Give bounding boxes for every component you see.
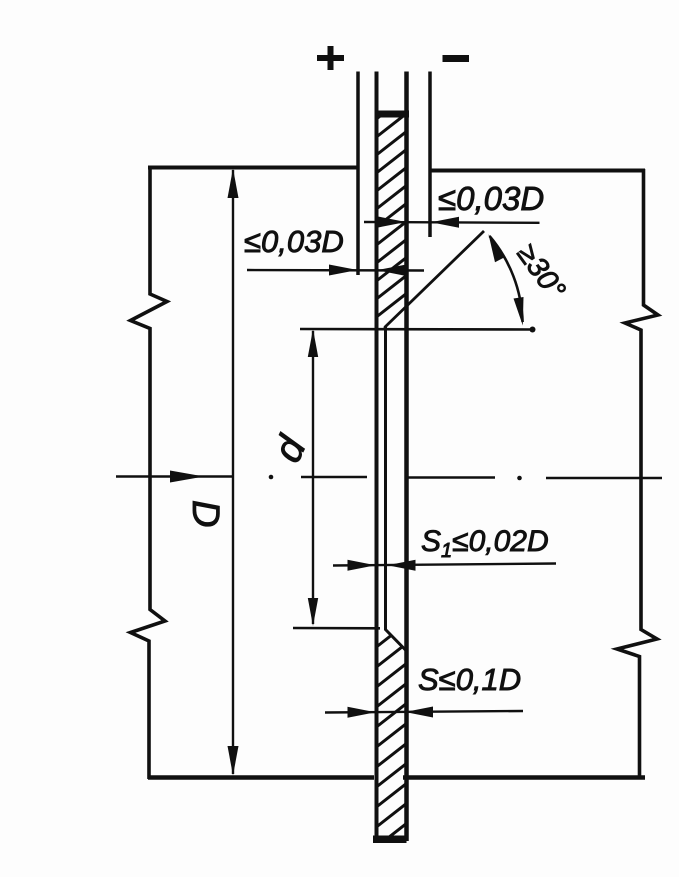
- left tap channel wall: [356, 72, 360, 276]
- dimension d bottom arrowhead: [308, 598, 318, 626]
- S1 left-pointing arrowhead: [388, 560, 416, 571]
- pipe top wall right segment: [430, 169, 645, 173]
- left slit dimension line: [247, 269, 424, 272]
- pipe right wall with break symbols: [617, 169, 658, 778]
- plate bottom end cap: [373, 836, 407, 844]
- pipe bottom wall right segment: [403, 775, 645, 780]
- flow centerline (dash-dot): [116, 477, 662, 479]
- lower bevel edge: [385, 629, 407, 651]
- centerline dot right: [517, 476, 522, 481]
- pipe top wall left segment: [148, 166, 358, 170]
- left slit left-pointing arrowhead: [377, 265, 405, 276]
- svg-text:≤0,03D: ≤0,03D: [244, 224, 344, 259]
- upstream edge bevel and its construction line: [385, 231, 485, 328]
- orifice plate right face: [404, 72, 409, 842]
- S1 dimension line: [333, 564, 556, 566]
- d top extension line: [300, 328, 534, 331]
- orifice plate bore land edge: [384, 327, 387, 631]
- plate lower section hatching: [370, 616, 416, 852]
- svg-text:S1≤0,02D: S1≤0,02D: [421, 525, 549, 562]
- pipe left wall with break symbols: [131, 166, 168, 780]
- right slit left-pointing arrowhead: [431, 217, 459, 228]
- flow direction arrowhead: [170, 471, 204, 483]
- right tap channel wall: [428, 72, 432, 238]
- dimension D bottom arrowhead: [228, 746, 239, 776]
- dimension d line: [312, 331, 314, 624]
- right slit dimension line: [364, 221, 540, 224]
- angle arc lower arrowhead: [514, 297, 524, 326]
- plate top end cap: [375, 111, 410, 118]
- plate upper section hatching: [370, 88, 416, 340]
- svg-text:≤0,03D: ≤0,03D: [438, 180, 544, 217]
- orifice plate left face: [375, 72, 379, 842]
- dimension d top arrowhead: [308, 329, 318, 357]
- plus pressure tap symbol: [317, 46, 344, 70]
- angle arc upper arrowhead: [489, 234, 506, 262]
- dimension D top arrowhead: [228, 169, 239, 199]
- S dimension line: [325, 711, 523, 713]
- right slit right-pointing arrowhead: [378, 217, 406, 228]
- left slit right-pointing arrowhead: [329, 265, 358, 276]
- S1 right-pointing arrowhead: [348, 560, 376, 571]
- svg-text:D: D: [184, 500, 226, 527]
- S right-pointing arrowhead: [348, 707, 376, 718]
- minus pressure tap symbol: [443, 55, 470, 62]
- dimension D line: [232, 170, 234, 774]
- d top extension end dot: [530, 327, 536, 333]
- centerline dot left: [269, 475, 274, 480]
- d bottom extension line: [293, 627, 380, 630]
- angle arc for bevel angle: [490, 236, 523, 322]
- svg-text:S≤0,1D: S≤0,1D: [418, 662, 521, 697]
- pipe bottom wall left segment: [148, 775, 374, 780]
- S left-pointing arrowhead: [405, 707, 433, 718]
